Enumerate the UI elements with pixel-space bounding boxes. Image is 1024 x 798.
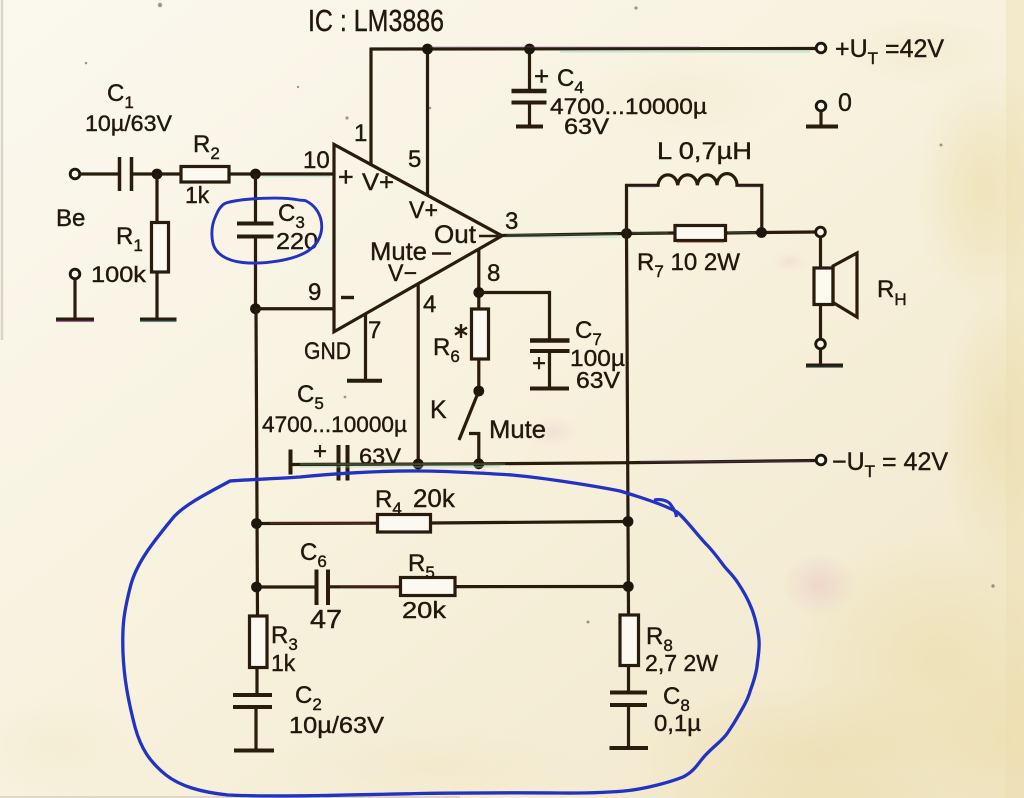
- terminal speaker top: [816, 227, 826, 237]
- wire R1 top: [155, 174, 158, 222]
- svg-text:47: 47: [310, 604, 342, 634]
- node junction C3/pin9: [250, 303, 261, 314]
- terminal +UT: [816, 43, 826, 53]
- capacitor C6: [315, 570, 319, 606]
- wire R7 to speaker: [726, 232, 817, 233]
- wire pin8 to C7: [479, 293, 550, 341]
- annotation blue pen hook: [654, 500, 677, 517]
- svg-text:7: 7: [368, 317, 381, 344]
- node junction R5 right: [623, 581, 634, 592]
- wire C3 top: [254, 174, 257, 223]
- capacitor C4: [512, 89, 547, 94]
- wire R4 row right: [431, 522, 629, 524]
- switch K blade: [459, 391, 479, 440]
- wire out tick: [479, 235, 498, 238]
- svg-text:GND: GND: [304, 338, 351, 365]
- annotation blue loop around feedback network: [123, 471, 759, 796]
- svg-text:4: 4: [423, 291, 436, 318]
- capacitor C2: [233, 693, 272, 697]
- terminal input: [70, 169, 80, 179]
- op-amp U1 LM3886 triangle: [334, 145, 502, 332]
- wire input ground: [73, 279, 76, 318]
- capacitor C5: [337, 445, 341, 481]
- resistor R3: [250, 616, 268, 668]
- annotation blue circle around C3: [212, 198, 322, 263]
- resistor R6: [472, 309, 489, 359]
- svg-text:V+: V+: [362, 169, 394, 196]
- inductor L: [627, 174, 762, 234]
- svg-text:9: 9: [308, 279, 321, 306]
- capacitor C7: [530, 338, 570, 343]
- wire 0 terminal to ground: [819, 111, 822, 127]
- wire speaker ground: [819, 349, 822, 364]
- svg-text:V+: V+: [409, 197, 438, 224]
- ground C2: [234, 749, 274, 753]
- terminal speaker bottom: [816, 339, 826, 349]
- wire pin4 down: [417, 284, 420, 464]
- svg-text:1k: 1k: [185, 182, 210, 208]
- svg-text:1: 1: [354, 120, 367, 147]
- resistor R7: [675, 226, 726, 241]
- svg-text:+: +: [534, 61, 549, 91]
- ground R1: [140, 318, 177, 322]
- wire pin1 to rail: [369, 48, 372, 167]
- node junction R4 right: [623, 516, 634, 527]
- ground speaker: [806, 364, 843, 368]
- wire mute tick: [432, 252, 451, 255]
- label minus input: [341, 296, 354, 299]
- svg-text:5: 5: [408, 146, 421, 173]
- node junction pin4/-rail: [413, 459, 424, 470]
- wire R2 to pin10: [229, 172, 334, 175]
- ground pin7: [347, 379, 382, 383]
- node junction switch/-rail: [473, 458, 484, 469]
- terminal input ground: [70, 269, 80, 279]
- node junction pin8: [473, 287, 484, 298]
- wire left column: [256, 309, 258, 616]
- wire input to C1: [80, 172, 119, 175]
- wire R8 to C8: [627, 666, 630, 693]
- wire top +U rail: [371, 47, 816, 51]
- switch K contact: [469, 434, 479, 465]
- node junction R4 left: [251, 518, 262, 529]
- svg-text:8: 8: [487, 260, 500, 287]
- resistor R1: [152, 223, 169, 273]
- speaker RH: [814, 268, 833, 305]
- node junction R2/C3: [250, 169, 261, 180]
- wire pin9: [256, 307, 335, 310]
- node switch top: [473, 386, 484, 397]
- node junction C4/rail: [524, 44, 535, 55]
- wire R4 row left: [257, 522, 378, 525]
- wire R5 to column: [455, 585, 628, 588]
- capacitor C8: [610, 691, 647, 695]
- svg-text:Be: Be: [56, 205, 85, 232]
- svg-text:63V: 63V: [576, 367, 621, 393]
- ground C7: [530, 387, 569, 391]
- svg-text:63V: 63V: [564, 114, 609, 139]
- svg-text:V−: V−: [388, 260, 417, 287]
- svg-text:0,1µ: 0,1µ: [654, 710, 701, 736]
- svg-text:1k: 1k: [271, 650, 296, 676]
- paper specks: [85, 3, 995, 624]
- wire -U rail: [291, 461, 817, 465]
- wire C6 row left: [257, 585, 317, 588]
- label R6 asterisk: [455, 324, 467, 338]
- ground C4: [516, 125, 543, 129]
- resistor R2: [181, 167, 229, 183]
- svg-text:+: +: [313, 438, 327, 465]
- wire R1 bottom: [155, 272, 158, 318]
- wire pin5 to rail: [426, 49, 429, 196]
- svg-text:20k: 20k: [402, 597, 447, 623]
- svg-text:L 0,7µH: L 0,7µH: [657, 138, 752, 165]
- node junction C6 left: [251, 582, 262, 593]
- svg-text:Out: Out: [434, 221, 476, 249]
- svg-text:3: 3: [505, 208, 518, 235]
- svg-text:+: +: [532, 350, 546, 377]
- svg-text:10: 10: [303, 147, 330, 174]
- wire C6 to R5: [329, 585, 401, 588]
- ground input: [56, 318, 94, 322]
- ground C8: [610, 746, 649, 750]
- resistor R8: [620, 615, 639, 666]
- svg-text:10µ/63V: 10µ/63V: [289, 712, 385, 738]
- svg-text:+: +: [338, 162, 354, 192]
- wire C3 bottom: [254, 237, 257, 310]
- node junction R7/L right: [756, 227, 767, 238]
- wire feedback column: [627, 234, 629, 616]
- capacitor C3: [237, 222, 274, 226]
- node junction pin5/rail: [422, 44, 433, 55]
- wire pin7 to ground: [364, 314, 367, 379]
- svg-text:10µ/63V: 10µ/63V: [85, 111, 172, 136]
- terminal -UT: [816, 455, 826, 465]
- capacitor C1: [118, 157, 122, 191]
- svg-text:4700...10000µ: 4700...10000µ: [262, 412, 407, 437]
- svg-text:IC : LM3886: IC : LM3886: [308, 3, 444, 38]
- resistor R5: [401, 578, 456, 596]
- wire pin8 down: [477, 250, 480, 309]
- ground C5 left bracket: [289, 450, 293, 475]
- wire C1 to R2: [133, 172, 182, 175]
- wire C4 to rail: [528, 49, 531, 91]
- wire fringe decorations: [56, 47, 843, 587]
- ground 0 terminal: [806, 125, 838, 129]
- wire speaker top: [819, 237, 822, 268]
- svg-text:100k: 100k: [91, 262, 147, 287]
- wire output pin3: [502, 233, 675, 236]
- node junction out/L: [621, 228, 632, 239]
- svg-text:Mute: Mute: [489, 416, 546, 444]
- wire R6 to switch: [477, 359, 480, 391]
- svg-text:2,7 2W: 2,7 2W: [645, 650, 718, 676]
- svg-text:0: 0: [838, 89, 852, 117]
- resistor R4: [378, 515, 431, 533]
- node junction C1/R1: [152, 169, 163, 180]
- wire R3 to C2: [255, 668, 258, 696]
- terminal 0: [816, 101, 826, 111]
- wire speaker bottom: [819, 305, 822, 340]
- svg-text:K: K: [430, 396, 447, 424]
